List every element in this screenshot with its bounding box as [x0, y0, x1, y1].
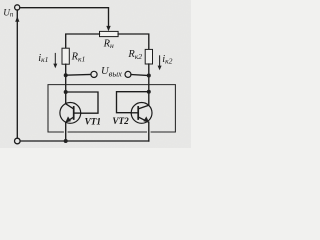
- transistor VT1: [60, 103, 81, 124]
- wire (Rн left end to Rк1 top): [66, 34, 100, 48]
- potentiometer Rн: [100, 31, 119, 36]
- terminal Uвых left: [91, 71, 97, 77]
- current arrow up on supply lead: [15, 16, 19, 22]
- wire (bottom emitter rail): [20, 140, 149, 142]
- terminal Uп: [15, 5, 20, 10]
- wire (VT1 emitter lead): [65, 122, 67, 141]
- node (VT1 emitter junction): [64, 139, 68, 143]
- current arrow iк1: [54, 53, 56, 64]
- Rн wiper arrow: [106, 26, 110, 31]
- svg-text:VT1: VT1: [85, 116, 101, 126]
- wire (VT2 emitter lead): [148, 122, 150, 141]
- wire (left supply lead): [16, 10, 18, 138]
- current arrow iк2: [159, 56, 161, 66]
- wire (top rail from Uп to Rн wiper): [20, 8, 109, 27]
- wire (Rк1 bottom to VT1 collector): [65, 64, 67, 104]
- node (VT1 collector-base tie): [64, 90, 68, 94]
- svg-text:VT2: VT2: [112, 116, 129, 126]
- wire (Rн right end to Rк2 top): [118, 34, 149, 49]
- svg-text:Uвых: Uвых: [101, 66, 122, 78]
- wire (to left output terminal): [66, 74, 91, 77]
- wire (Rк2 bottom to VT2 collector): [148, 64, 150, 105]
- package outline (transistor pair case): [48, 85, 175, 132]
- wire (VT2 base-collector loop): [117, 92, 149, 113]
- terminal Uвых right: [125, 71, 131, 77]
- node (Rк2/output tap): [147, 74, 151, 78]
- node (VT2 collector-base tie): [147, 90, 151, 94]
- transistor VT2: [131, 103, 152, 124]
- wire (VT1 base-collector loop): [66, 92, 98, 113]
- wire (right output terminal to Rк2 column): [131, 75, 149, 76]
- resistor Rк2: [145, 49, 152, 64]
- resistor Rк1: [62, 48, 69, 64]
- terminal (bottom left): [14, 138, 20, 144]
- svg-text:iк2: iк2: [162, 54, 172, 65]
- svg-text:iк1: iк1: [38, 53, 48, 64]
- node (Rк1/output tap): [64, 73, 68, 77]
